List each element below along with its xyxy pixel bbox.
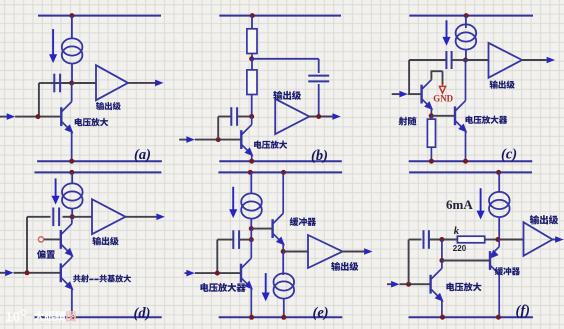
op-amp buffer U1 (a) — [96, 65, 128, 100]
wire: L-corner down to input (a) — [38, 83, 40, 117]
wire: ground rail (b) — [219, 160, 341, 162]
junction: resistor left node (f) — [439, 237, 444, 242]
wire: ground rail (f) — [409, 316, 533, 318]
junction: ground rail node I2 (e) — [281, 315, 286, 320]
label: 缓冲器 buffer (f) — [495, 267, 520, 275]
wire: C1 to collector node (b) — [237, 116, 251, 118]
wire: V+ rail (c) — [409, 15, 533, 17]
wire: L-corner down to input (d) — [26, 217, 28, 273]
watermark 大眼睛图 — [5, 310, 76, 325]
wire: down to AC ground (c) — [442, 71, 444, 84]
junction: rail node (a) — [69, 13, 74, 18]
junction: emitter node (c) — [429, 113, 434, 118]
svg-text:(f): (f) — [516, 303, 531, 319]
junction: ground rail node Q1 (f) — [440, 315, 445, 320]
wire: ground rail (a) — [37, 160, 162, 162]
wire: input to Q2 base (d) — [14, 272, 61, 274]
junction: base node (f) — [439, 258, 444, 263]
wire: resistor node down (f) — [441, 240, 443, 261]
capacitor C1 (f) — [424, 230, 429, 249]
current direction arrow (a) — [50, 29, 57, 62]
current source I1 (e) — [241, 193, 262, 218]
junction: output node (e) — [281, 249, 286, 254]
current source I2 (e) — [274, 273, 295, 298]
op-amp buffer U1 (f) — [524, 222, 553, 256]
wire: input lead-in (c) — [392, 93, 401, 95]
wire: current source to collector node (a) — [71, 64, 73, 83]
wire: Q2 emitter to ground (d) — [71, 289, 73, 318]
junction: output node (b) — [316, 114, 321, 119]
junction: input node (a) — [36, 114, 41, 119]
junction: rail node Q1 (e) — [281, 170, 286, 175]
wire: collector node to cap (a) — [52, 82, 72, 84]
transistor Q1 common-emitter (b) — [241, 125, 252, 156]
wire: bias terminal to Q1 base (d) — [44, 238, 61, 240]
junction: ground rail node Q2 (f) — [496, 315, 501, 320]
wire: R1 to node (b) — [251, 54, 253, 59]
wire: cap to cap node (e) — [239, 239, 251, 241]
wire: ground rail (c) — [409, 160, 533, 162]
wire: Q1 collector riser (c) — [430, 71, 432, 80]
label: 输出级 output stage (e) — [331, 262, 358, 271]
label: 输出级 output stage (a) — [96, 102, 121, 110]
transistor Q1 common-emitter (f) — [431, 268, 443, 301]
wire: emitter node to Q2 base (c) — [431, 115, 455, 117]
label: 射随 emitter follower (c) — [398, 117, 416, 126]
junction: rail node (f) — [496, 170, 501, 175]
wire: output node to buffer (e) — [283, 251, 308, 253]
input signal arrow (b) — [186, 136, 194, 143]
junction: ground rail node (d) — [69, 315, 74, 320]
wire: input to Q2 base (e) — [195, 272, 241, 274]
wire: R1 to ground (c) — [430, 147, 432, 161]
wire: buffer output (f) — [553, 239, 557, 241]
wire: Q1 emitter down (c) — [430, 109, 432, 116]
wire: buffer output (a) — [128, 82, 155, 84]
wire: Q1 emitter to ground rail (a) — [71, 132, 73, 162]
junction: rail node (b) — [250, 13, 255, 18]
current source I1 (a) — [62, 38, 83, 63]
junction: ground rail node (b) — [249, 159, 254, 164]
wire: cap to L-corner (d) — [27, 216, 51, 218]
wire: current source to cap node (d) — [71, 209, 73, 217]
wire: input lead-in (e) — [185, 272, 189, 274]
wire: cap to L-corner (a) — [39, 82, 53, 84]
wire: Q2 collector up to cap node (e) — [250, 240, 252, 259]
capacitor C1 (c) — [446, 51, 451, 69]
wire: Q2 emitter to ground (e) — [250, 288, 252, 317]
wire: base node to Q1 base (e) — [251, 228, 272, 230]
wire: ground rail (d) — [35, 316, 162, 318]
wire: corner down to input (c) — [408, 60, 410, 94]
wire: Q2 emitter up to node (f) — [498, 240, 500, 247]
junction: rail node I1 (e) — [248, 170, 253, 175]
output arrow (d) — [156, 214, 164, 221]
op-amp buffer U1 (c) — [489, 43, 523, 78]
current source I1 6mA (f) — [489, 192, 510, 217]
wire: input lead-in (a) — [0, 116, 9, 118]
wire: cap to corner (c) — [409, 59, 446, 61]
junction: input node (d) — [25, 270, 30, 275]
current source I1 (d) — [62, 183, 83, 208]
wire: C2 down to output node (b) — [318, 84, 320, 117]
svg-text:220: 220 — [453, 244, 467, 253]
junction: ground rail node (a) — [69, 159, 74, 164]
wire: base node to cap node (e) — [250, 229, 252, 240]
wire: V+ rail (f) — [409, 171, 532, 173]
op-amp buffer U1 (b) — [275, 99, 309, 134]
op-amp buffer U1 (e) — [308, 235, 343, 268]
wire: V+ rail (d) — [35, 171, 162, 173]
capacitor C1 (a) — [54, 74, 60, 93]
wire: input to Q1 base (f) — [400, 283, 431, 285]
svg-text:GND: GND — [433, 93, 453, 103]
junction: source node (c) — [463, 58, 468, 63]
AC ground stub (c) — [442, 84, 444, 87]
wire: input to Q1 base (c) — [408, 93, 422, 95]
wire: cap to L-corner (e) — [217, 239, 233, 241]
current source I1 (c) — [456, 24, 477, 49]
wire: input to base (b) — [195, 139, 242, 141]
transistor Q1 buffer (e) — [273, 213, 285, 244]
wire: rail to current source (f) — [498, 172, 500, 191]
wire: V+ rail (b) — [219, 15, 341, 17]
label: 电压放大器 voltage amplifier (e) — [200, 283, 245, 292]
transistor Q2 common-emitter (d) — [61, 257, 73, 289]
wire: Q1 collector up to cap node (d) — [71, 217, 73, 224]
wire: rail to R1 (b) — [251, 16, 253, 29]
wire: Q1 emitter to Q2 collector (d) — [71, 255, 73, 257]
wire: L-corner down to input (e) — [216, 240, 218, 274]
transistor Q2 common-emitter (e) — [241, 258, 252, 289]
label: 输出级 output stage (f) — [530, 215, 558, 224]
label: 偏置 bias (d) — [37, 250, 55, 259]
junction: input node (b) — [216, 137, 221, 142]
transistor Q1 common-emitter (a) — [61, 102, 72, 133]
junction: input node (e) — [215, 271, 220, 276]
junction: input node (f) — [406, 282, 411, 287]
junction: rail node (c) — [464, 13, 469, 18]
wire: current source to node (c) — [465, 50, 467, 60]
transistor Q2 common-emitter (c) — [455, 101, 466, 132]
wire: Q1 collector up (a) — [71, 83, 73, 102]
junction: rail node (d) — [69, 170, 74, 175]
junction: emitter node (f) — [495, 237, 500, 242]
junction: ground rail node R1 (c) — [429, 159, 434, 164]
input signal arrow (c) — [399, 91, 407, 98]
wire: cap node to buffer input (d) — [72, 216, 92, 218]
svg-text:6mA: 6mA — [446, 197, 473, 212]
junction: cap node (e) — [249, 237, 254, 242]
wire: corner down to cap C2 (b) — [318, 59, 320, 73]
svg-text:(c): (c) — [501, 147, 517, 163]
junction: cap node (d) — [70, 214, 75, 219]
wire: output node to I2 (e) — [282, 252, 284, 276]
input signal arrow (a) — [7, 113, 15, 120]
wire: R2 to collector node (b) — [251, 95, 253, 117]
resistor R1 (b) — [247, 29, 257, 54]
wire: divider node to corner (b) — [252, 58, 319, 60]
svg-text:(d): (d) — [134, 306, 151, 322]
wire: base node down to Q1 collector (f) — [441, 261, 443, 269]
capacitor C1 (d) — [53, 208, 59, 227]
wire: V+ rail (e) — [218, 171, 342, 173]
wire: rail to current source I1 (e) — [250, 172, 252, 193]
wire: input to base (a) — [15, 116, 61, 118]
wire: collector top run (c) — [431, 70, 443, 72]
label: 输出级 output stage (d) — [92, 237, 118, 246]
wire: I2 to ground (e) — [283, 299, 285, 317]
wire: rail to current source (a) — [71, 16, 73, 38]
wire: input lead-in (f) — [387, 283, 392, 285]
input signal arrow (d) — [5, 270, 13, 277]
wire: L-corner up to cap (f) — [408, 240, 410, 285]
transistor Q2 PNP follower (f) — [490, 247, 499, 275]
wire: Q1 collector up (b) — [251, 117, 253, 125]
resistor R2 (b) — [247, 70, 257, 95]
svg-text:10: 10 — [5, 310, 20, 325]
output arrow (a) — [155, 80, 163, 87]
wire: Q1 emitter to ground (b) — [251, 155, 253, 162]
label: 电压放大 voltage amplifier (a) — [75, 118, 109, 126]
junction: base node (e) — [249, 226, 254, 231]
capacitor C2 (b) — [308, 76, 329, 82]
svg-text:(a): (a) — [134, 147, 151, 163]
wire: cap to resistor node (f) — [429, 239, 457, 241]
current direction arrow I1 (e) — [230, 187, 237, 217]
output arrow (e) — [364, 248, 372, 255]
wire: cap node to cap (d) — [63, 216, 73, 218]
wire: base node to Q2 base (f) — [442, 260, 490, 262]
label: 缓冲器 buffer (e) — [290, 217, 316, 226]
wire: input lead-in (b) — [179, 139, 187, 141]
wire: current source to emitter node (f) — [498, 218, 500, 240]
wire: Q2 emitter to ground (c) — [465, 131, 467, 161]
label: 电压放大 voltage amplifier (f) — [446, 282, 481, 291]
wire: node to buffer input (c) — [466, 59, 489, 61]
wire: Q1 emitter to output node (e) — [282, 244, 284, 252]
transistor Q1 emitter follower (c) — [422, 80, 433, 110]
wire: corner to cap C1 (b) — [218, 116, 231, 118]
wire: input lead-in (d) — [0, 272, 7, 274]
wire: Q2 collector up to node (c) — [465, 60, 467, 101]
wire: cap to source node (c) — [452, 59, 466, 61]
junction: ground rail node Q2 (c) — [463, 159, 468, 164]
wire: node to R2 (b) — [251, 59, 253, 70]
label: 输出级 output stage (b) — [273, 91, 301, 100]
wire: rail to current source (d) — [71, 172, 73, 183]
svg-text:(e): (e) — [313, 305, 329, 321]
junction: collector node (b) — [249, 114, 254, 119]
junction: ground rail node Q2 (e) — [249, 315, 254, 320]
current direction arrow (c) — [443, 20, 450, 44]
junction: divider node (b) — [249, 56, 254, 61]
wire: buffer output to node (b) — [309, 116, 332, 118]
label: 共射--共基放大 cascode (d) — [73, 275, 131, 283]
wire: buffer output (d) — [126, 216, 158, 218]
wire: Q1 collector to rail (e) — [282, 172, 284, 213]
output arrow (c) — [547, 57, 555, 64]
wire: emitter node to R1 (c) — [430, 116, 432, 119]
current direction arrow (f) — [477, 188, 484, 218]
op-amp buffer U1 (d) — [92, 199, 126, 234]
transistor Q1 common-base (d) — [61, 224, 73, 256]
capacitor C1 (b) — [231, 107, 237, 126]
capacitor C1 (e) — [233, 230, 239, 249]
bias terminal (red circle) (d) — [38, 237, 43, 242]
resistor R1 220 (f) — [457, 236, 484, 243]
junction: collector node (a) — [69, 81, 74, 86]
current direction arrow (d) — [52, 178, 59, 203]
wire: ground rail (e) — [219, 316, 343, 318]
resistor R1 (c) — [427, 119, 435, 147]
input signal arrow (e) — [186, 270, 194, 277]
wire: rail to current source (c) — [465, 16, 467, 28]
current direction arrow I2 (e) — [262, 273, 269, 300]
output arrow (b) — [332, 113, 340, 120]
input signal arrow (f) — [391, 281, 399, 288]
wire: V+ rail (a) — [38, 15, 161, 17]
wire: resistor to emitter node (f) — [485, 239, 500, 241]
label: 输出级 output stage (c) — [490, 80, 515, 88]
wire: Q1 emitter to ground (f) — [441, 300, 443, 317]
label: 电压放大 voltage amplifier (b) — [254, 140, 287, 148]
svg-text:k: k — [454, 226, 460, 237]
ground arrow symbol GND (c) — [439, 86, 445, 93]
svg-text:(b): (b) — [311, 148, 328, 164]
wire: input node up to cap C1 (b) — [217, 117, 219, 140]
wire: buffer output (e) — [343, 251, 365, 253]
wire: buffer output (c) — [522, 59, 547, 61]
label: 电压放大器 voltage amplifier (c) — [465, 116, 507, 124]
wire: emitter node to buffer (f) — [499, 239, 523, 241]
output arrow (f) — [555, 236, 563, 243]
wire: node to buffer input (a) — [72, 82, 96, 84]
wire: I1 to base node (e) — [250, 219, 252, 228]
wire: L-corner to cap (f) — [409, 239, 422, 241]
wire: Q2 collector to ground (f) — [498, 274, 500, 317]
